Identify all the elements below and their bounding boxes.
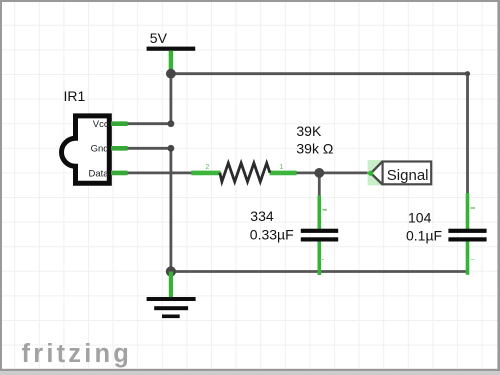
window strip below border bbox=[0, 371, 500, 375]
svg-text:Vcc: Vcc bbox=[93, 119, 109, 130]
capacitor C1 plates bbox=[301, 229, 338, 242]
capacitor C2 top lead bbox=[466, 193, 470, 230]
net label Signal flag bbox=[368, 160, 432, 185]
IR1 pin Vcc lead bbox=[111, 121, 128, 126]
wire right vertical from top rail to C2 bbox=[466, 72, 469, 197]
svg-text:39k Ω: 39k Ω bbox=[296, 141, 333, 157]
junction node at Vcc bbox=[168, 120, 175, 127]
svg-text:Signal: Signal bbox=[387, 167, 429, 184]
svg-text:104: 104 bbox=[408, 210, 432, 226]
capacitor C2 pin mark top bbox=[471, 207, 476, 209]
svg-text:0.33µF: 0.33µF bbox=[250, 226, 294, 242]
ground pin lead bbox=[169, 272, 173, 298]
ground symbol bbox=[147, 297, 196, 318]
wire Gnd pin to vertical bbox=[126, 147, 171, 150]
capacitor C2 plates bbox=[448, 229, 486, 242]
svg-text:~: ~ bbox=[320, 256, 325, 265]
capacitor C1 top lead bbox=[317, 196, 321, 230]
svg-text:334: 334 bbox=[250, 208, 274, 224]
capacitor C2 bottom lead bbox=[466, 241, 470, 275]
wire from 5V junction down to Vcc node bbox=[169, 74, 172, 124]
svg-text:IR1: IR1 bbox=[64, 88, 86, 104]
svg-text:Data: Data bbox=[89, 168, 110, 179]
wire bottom ground rail bbox=[171, 270, 468, 273]
svg-text:~: ~ bbox=[470, 256, 475, 265]
IR1 pin Data lead bbox=[111, 171, 128, 176]
power symbol 5V bbox=[147, 30, 196, 72]
capacitor C1 pin mark top bbox=[323, 209, 328, 211]
svg-text:0.1µF: 0.1µF bbox=[406, 228, 442, 244]
IR1 pin Gnd lead bbox=[111, 146, 128, 151]
wire Data pin to resistor bbox=[126, 171, 193, 174]
svg-text:fritzing: fritzing bbox=[22, 340, 133, 368]
svg-text:39K: 39K bbox=[296, 123, 322, 139]
svg-text:Gnd: Gnd bbox=[91, 144, 109, 155]
resistor R1 zigzag bbox=[220, 163, 270, 182]
resistor R1 left lead bbox=[191, 171, 220, 176]
capacitor C1 bottom lead bbox=[317, 241, 321, 276]
junction node A (5V rail) bbox=[166, 69, 176, 79]
resistor R1 right lead bbox=[270, 171, 297, 176]
corner top-right bbox=[465, 71, 470, 76]
junction node at Gnd bbox=[168, 145, 175, 152]
wire node B down to C1 bbox=[318, 173, 321, 197]
IR receiver IR1 body bbox=[62, 116, 110, 183]
svg-text:1: 1 bbox=[280, 164, 284, 171]
junction node B (resistor / C1 / signal) bbox=[314, 168, 324, 178]
wire Vcc pin to vertical bbox=[126, 122, 171, 125]
wire Gnd vertical down to ground rail bbox=[169, 148, 172, 271]
junction node at ground rail bbox=[166, 266, 176, 276]
svg-text:2: 2 bbox=[206, 164, 210, 171]
svg-text:5V: 5V bbox=[150, 30, 168, 46]
wire resistor to node B bbox=[296, 171, 319, 174]
wire top rail from 5V junction to right corner bbox=[171, 72, 468, 75]
wire node B to Signal label bbox=[319, 171, 369, 174]
